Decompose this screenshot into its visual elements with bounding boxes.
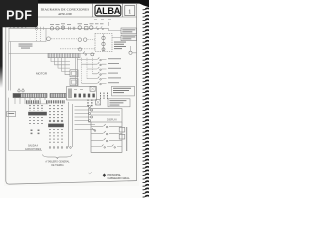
lamp H4: [78, 48, 81, 51]
relay K2: [85, 27, 88, 30]
lamp H7: [102, 48, 105, 51]
wire row2: [51, 38, 77, 40]
JB1 note text: [114, 42, 126, 50]
capacitor C1: [69, 27, 71, 30]
left scanner edge: [0, 0, 3, 88]
component labels row: [50, 23, 104, 25]
page background: [0, 0, 149, 198]
aux contact box X6: [119, 134, 125, 139]
aux switch box X4: [90, 86, 95, 91]
control box CB1: [9, 28, 46, 41]
wire drops from TB2: [15, 98, 45, 104]
wire ladder v2: [81, 58, 83, 83]
svg-text:AP30-1000: AP30-1000: [58, 12, 72, 16]
wire to terminal boxes: [108, 22, 121, 38]
wire stair 4: [62, 58, 71, 72]
capacitor strip CS1: [26, 100, 41, 103]
wire ladder v3: [86, 58, 88, 79]
note box N2: [108, 99, 130, 107]
tap nodes: [89, 106, 93, 122]
wire dashed drop: [37, 30, 41, 42]
meter M4: [89, 26, 93, 30]
capacitor column group CR2: [50, 129, 62, 143]
spiral binding marks: [143, 8, 150, 197]
checkmark: [89, 172, 92, 174]
display box U1: [89, 109, 123, 123]
rung 1: [77, 57, 121, 60]
wire riser R: [69, 102, 73, 147]
sheet outer border: [6, 4, 137, 184]
switch S2: [101, 26, 104, 29]
ladder wires right: [76, 58, 78, 86]
label A TABLERO GENERAL: [45, 161, 70, 167]
wire stair 2: [55, 58, 71, 65]
svg-text:1: 1: [128, 9, 131, 15]
terminal strip TB2: [13, 93, 47, 97]
switch S1: [96, 26, 99, 29]
wire ladder v4: [92, 58, 94, 74]
svg-text:CAPACITORES: CAPACITORES: [25, 148, 42, 151]
aux box X3: [70, 79, 78, 86]
wire row3: [60, 48, 95, 50]
motor M feed wires: [9, 42, 11, 91]
pushbutton PB4: [91, 145, 122, 148]
control box label: [19, 44, 33, 49]
pushbutton PB2: [91, 131, 122, 135]
wire bus lower: [26, 103, 48, 105]
note box N1: [112, 86, 135, 96]
rung 5: [87, 77, 121, 80]
capacitor column group CL: [30, 105, 42, 111]
capacitor bank dark band BL: [28, 112, 47, 116]
meter M2: [56, 27, 59, 30]
note tag: [7, 111, 16, 116]
wire stair 3: [58, 58, 70, 68]
pushbutton PB3: [91, 138, 122, 142]
brace under capacitors: [43, 155, 73, 159]
node A: [129, 51, 132, 54]
aux contact box X5: [119, 127, 125, 132]
schematic group: [7, 22, 137, 159]
aux box X7: [96, 100, 101, 105]
rung 6: [82, 81, 120, 84]
fuse bank F1: [101, 93, 108, 100]
wire row2 right: [88, 39, 96, 41]
ground feed wire: [9, 98, 43, 151]
svg-text:MOTOR: MOTOR: [36, 72, 48, 76]
terminal circles: [18, 88, 24, 92]
wire stair 1: [51, 58, 70, 62]
node dots CR: [49, 120, 63, 122]
switch S3: [83, 51, 87, 55]
meter M6: [91, 53, 94, 56]
lamp H1: [61, 26, 64, 29]
fuse stack FS1: [88, 100, 92, 108]
title block row: [6, 4, 137, 17]
terminal strip TB1: [48, 53, 80, 57]
logo ALBA: [95, 5, 121, 16]
svg-text:PDF: PDF: [6, 9, 32, 23]
lamp H2: [78, 38, 81, 41]
rung 2: [82, 62, 120, 65]
switch S4: [92, 128, 96, 131]
pushbutton ladder: [91, 122, 122, 152]
capacitor strip CS2: [46, 100, 65, 103]
contactor box K3: [67, 87, 97, 101]
label SALIDA A CAPACITORES: [25, 145, 42, 151]
rung 4: [93, 72, 119, 75]
capacitor column group CR: [50, 105, 62, 119]
wire stair 5: [65, 58, 70, 75]
contact K1: [41, 27, 44, 30]
note PRINCIPAL: [103, 173, 131, 180]
wire in JB1: [103, 34, 105, 52]
terminal strip TB3: [50, 93, 66, 97]
wire bus mid: [9, 53, 96, 55]
svg-text:DIAGRAMA DE CONEXIONES: DIAGRAMA DE CONEXIONES: [41, 8, 90, 12]
svg-text:A TABLERO GENERAL: A TABLERO GENERAL: [45, 161, 70, 164]
meter M1: [50, 27, 53, 30]
junction box JB1: [95, 34, 112, 52]
terminal label box TB-A: [121, 28, 137, 34]
meter M5: [47, 37, 51, 41]
terminal label box TB-B: [121, 35, 137, 40]
capacitor bank dark band BR: [48, 124, 64, 128]
sheet number 1: [125, 6, 135, 16]
capacitor pair P1: [32, 130, 39, 136]
terminal dots bottom: [49, 147, 71, 149]
svg-text:CABLEADO GRAL.: CABLEADO GRAL.: [108, 176, 131, 180]
top scanner bar: [0, 0, 149, 4]
rung 3: [87, 67, 121, 70]
wire node A: [131, 46, 137, 53]
wire taps right: [75, 107, 96, 130]
fuse X1: [35, 27, 38, 30]
title text DIAGRAMA DE CONEXIONES: [41, 8, 90, 16]
pushbutton PB1: [91, 124, 122, 128]
capacitor column group CL2: [30, 117, 42, 126]
svg-text:SALIDA A: SALIDA A: [28, 145, 39, 148]
capacitor C2: [73, 27, 75, 30]
svg-text:ALBA: ALBA: [96, 6, 121, 16]
top-right corner blob: [139, 0, 149, 7]
vertical label: [126, 127, 127, 151]
lamp H3: [84, 38, 87, 41]
PDF badge: [0, 0, 38, 27]
meter M3: [78, 26, 82, 30]
svg-text:DE TIERRA: DE TIERRA: [51, 164, 64, 167]
aux box X2: [70, 70, 78, 77]
lamp H6: [102, 42, 105, 45]
svg-text:DISPLAY: DISPLAY: [107, 119, 117, 122]
inductor L1: [10, 26, 26, 28]
lamp H5: [102, 36, 105, 39]
wire stubs below logo: [94, 19, 111, 21]
wire main top: [9, 27, 109, 29]
